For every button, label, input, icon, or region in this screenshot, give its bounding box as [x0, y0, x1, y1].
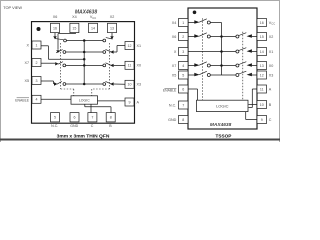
svg-text:X6: X6 — [172, 35, 177, 39]
svg-text:12: 12 — [128, 44, 132, 48]
svg-text:ENABLE: ENABLE — [15, 98, 29, 102]
svg-text:X2: X2 — [269, 35, 274, 39]
svg-text:5: 5 — [54, 116, 56, 120]
svg-text:X4: X4 — [172, 21, 177, 25]
svg-text:X7: X7 — [24, 61, 29, 65]
svg-text:N.C.: N.C. — [169, 103, 176, 107]
svg-text:X4: X4 — [72, 15, 77, 19]
svg-text:3: 3 — [36, 79, 38, 83]
svg-text:C: C — [269, 118, 272, 122]
svg-text:11: 11 — [128, 64, 132, 68]
svg-text:3: 3 — [182, 50, 184, 54]
svg-text:2: 2 — [182, 35, 184, 39]
svg-text:10: 10 — [260, 103, 264, 107]
svg-text:1: 1 — [36, 43, 38, 47]
svg-text:16: 16 — [53, 26, 57, 30]
svg-text:X3: X3 — [269, 73, 274, 77]
svg-text:ENABLE: ENABLE — [163, 89, 177, 93]
svg-text:X0: X0 — [137, 64, 142, 68]
svg-text:14: 14 — [91, 26, 95, 30]
svg-text:X5: X5 — [172, 73, 177, 77]
svg-text:8: 8 — [110, 116, 112, 120]
svg-text:X3: X3 — [137, 83, 142, 87]
svg-text:15: 15 — [72, 26, 76, 30]
svg-text:GND: GND — [168, 118, 177, 122]
svg-text:X5: X5 — [24, 79, 29, 83]
svg-text:LOGIC: LOGIC — [79, 99, 90, 103]
svg-text:4: 4 — [182, 64, 184, 68]
svg-text:10: 10 — [128, 83, 132, 87]
svg-text:1: 1 — [182, 21, 184, 25]
svg-text:8: 8 — [182, 118, 184, 122]
svg-text:4: 4 — [36, 98, 38, 102]
svg-text:LOGIC: LOGIC — [216, 104, 229, 109]
svg-text:7: 7 — [91, 116, 93, 120]
svg-text:9: 9 — [129, 100, 131, 104]
svg-text:X2: X2 — [110, 15, 115, 19]
svg-text:MAX4638: MAX4638 — [75, 9, 97, 15]
svg-text:X1: X1 — [269, 50, 274, 54]
svg-text:13: 13 — [110, 26, 114, 30]
svg-text:15: 15 — [260, 35, 264, 39]
svg-text:TOP VIEW: TOP VIEW — [3, 5, 22, 10]
svg-text:X0: X0 — [269, 64, 274, 68]
svg-text:C: C — [91, 124, 94, 128]
svg-text:N.C.: N.C. — [51, 124, 58, 128]
svg-text:TSSOP: TSSOP — [216, 134, 232, 139]
svg-text:2: 2 — [36, 61, 38, 65]
svg-text:11: 11 — [260, 87, 264, 91]
svg-text:12: 12 — [260, 73, 264, 77]
svg-text:6: 6 — [74, 116, 76, 120]
svg-text:14: 14 — [260, 50, 264, 54]
svg-text:7: 7 — [182, 103, 184, 107]
svg-text:9: 9 — [261, 118, 263, 122]
svg-text:13: 13 — [260, 64, 264, 68]
svg-text:GND: GND — [70, 124, 78, 128]
svg-text:X7: X7 — [172, 64, 177, 68]
svg-text:6: 6 — [182, 87, 184, 91]
svg-text:16: 16 — [260, 21, 264, 25]
svg-text:3mm x 3mm THIN QFN: 3mm x 3mm THIN QFN — [57, 134, 110, 140]
svg-text:X1: X1 — [137, 44, 142, 48]
svg-text:5: 5 — [182, 73, 184, 77]
svg-text:MAX4638: MAX4638 — [210, 122, 232, 128]
svg-text:X6: X6 — [53, 15, 58, 19]
